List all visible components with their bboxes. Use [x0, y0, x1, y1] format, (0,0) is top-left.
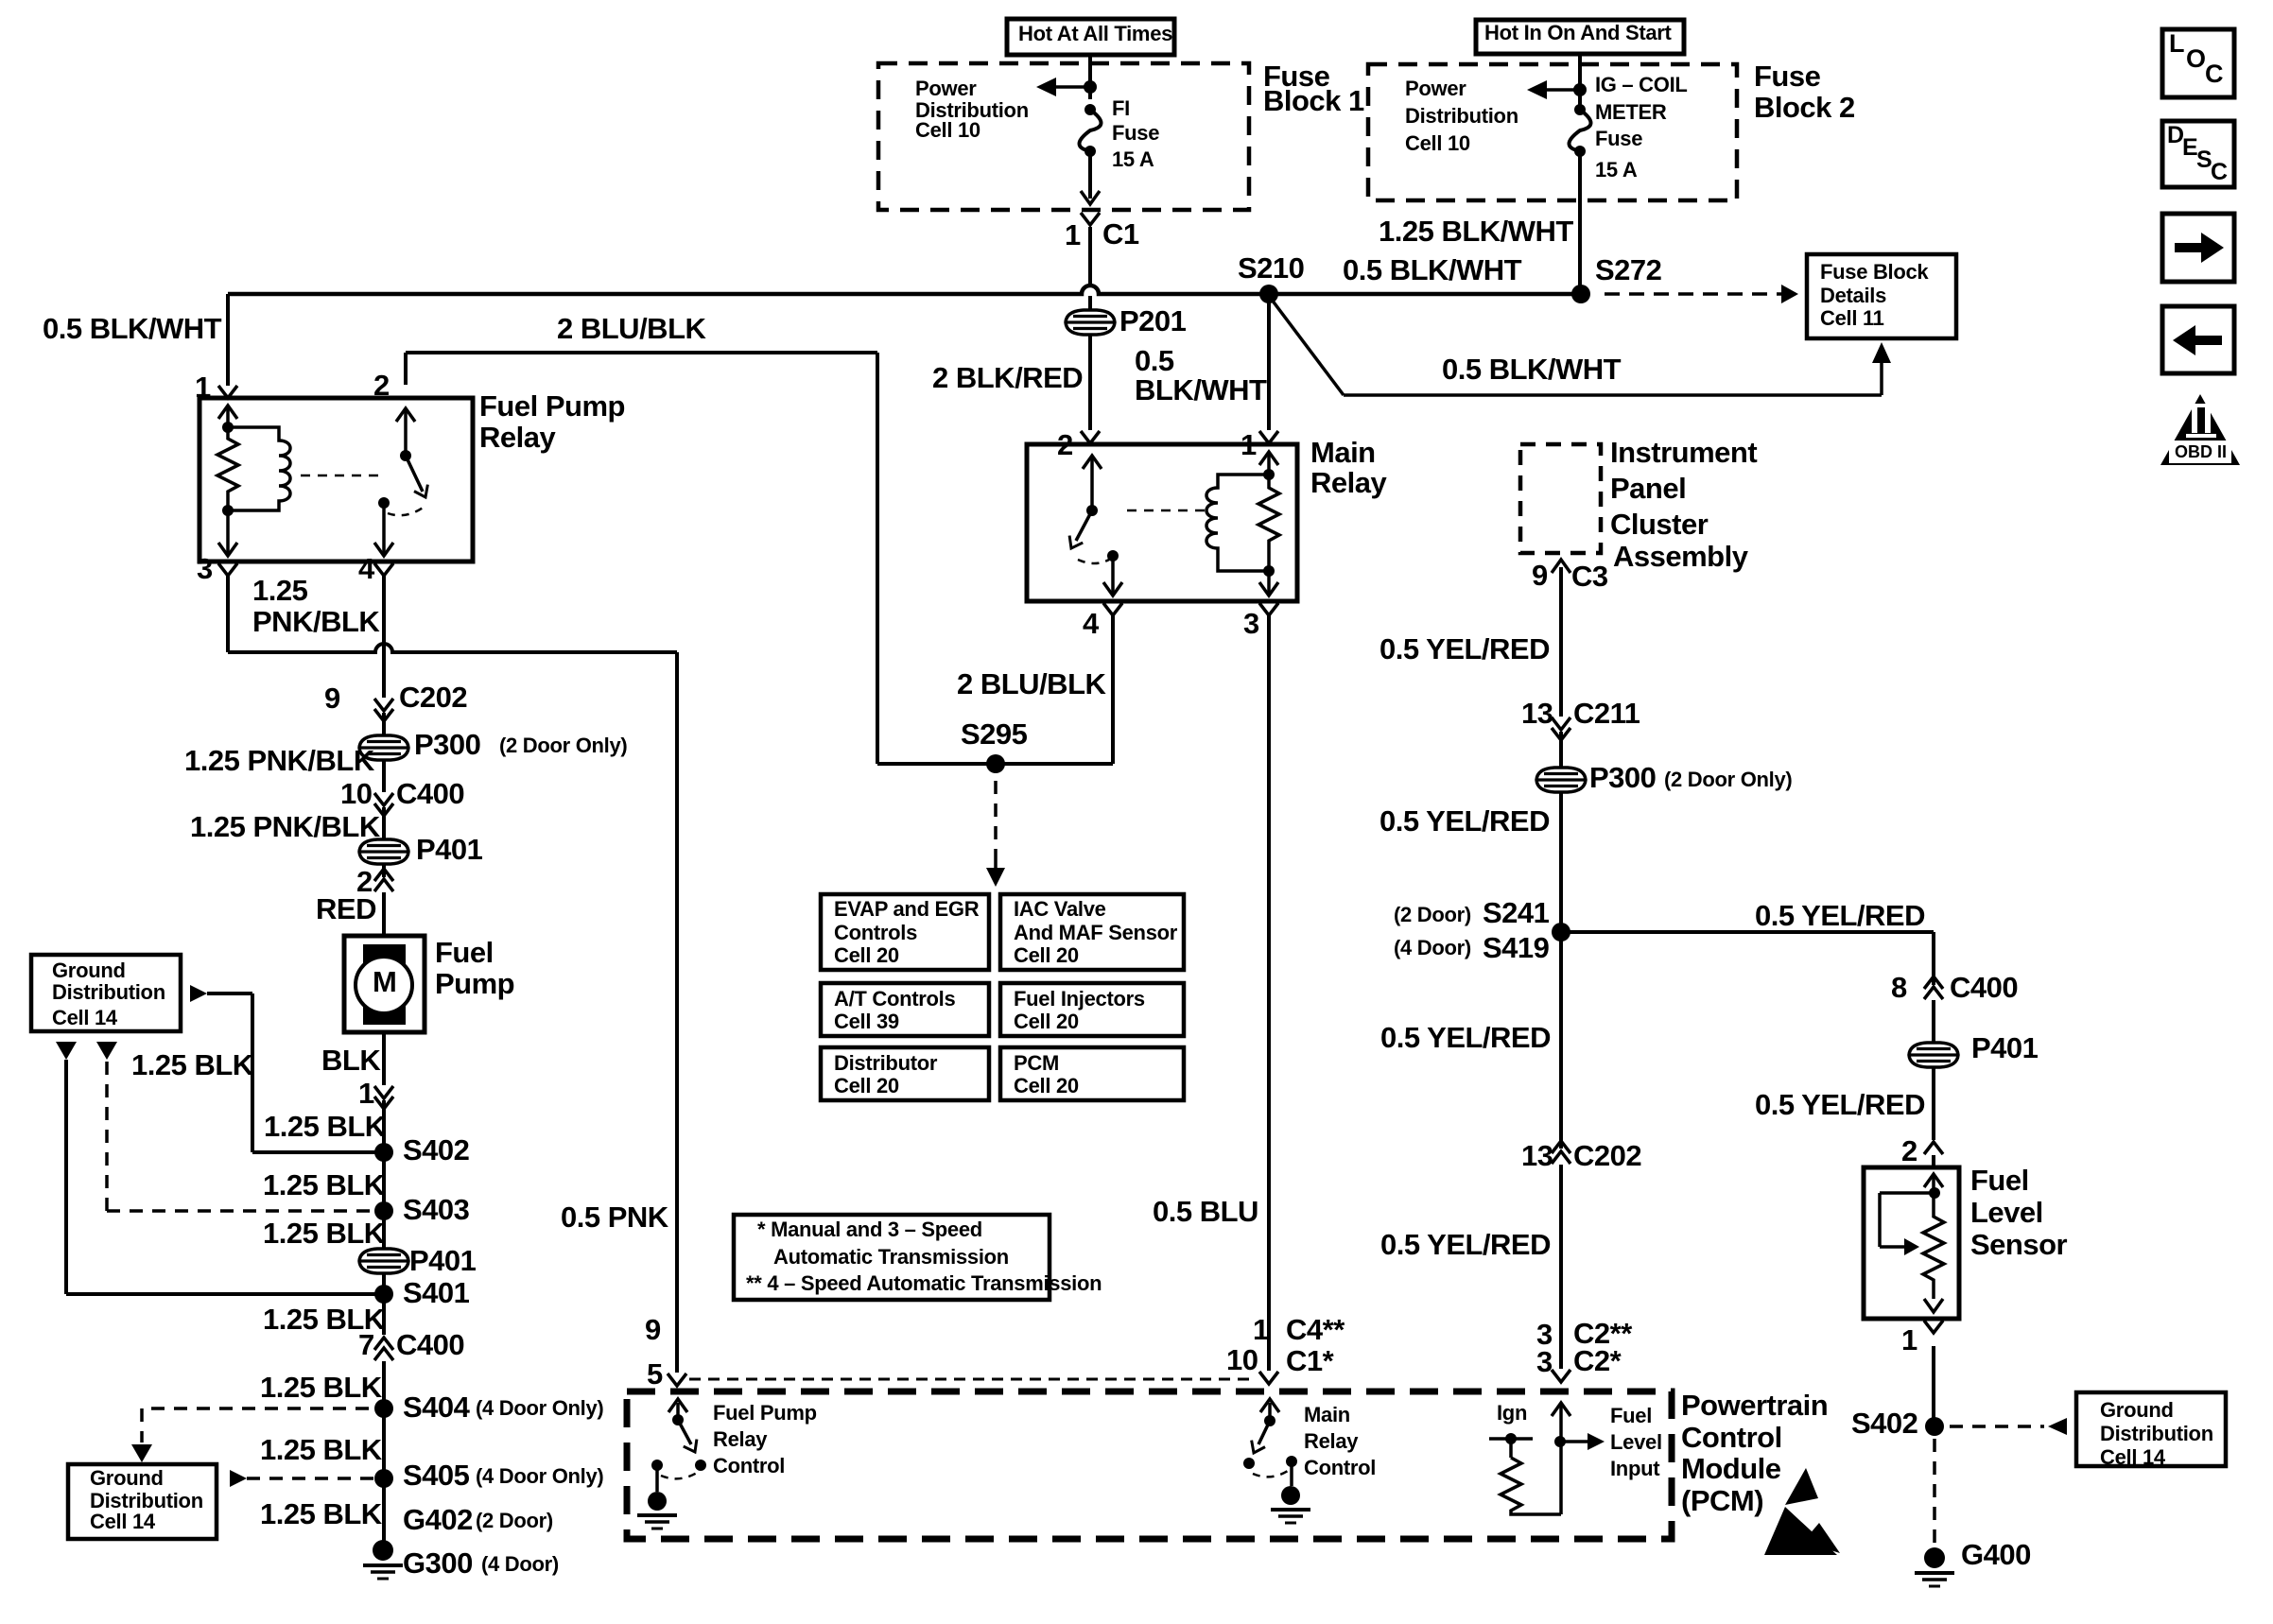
FLS bottom arrow	[1924, 1299, 1943, 1312]
connector chevron main relay pin2	[1081, 431, 1100, 443]
label ground distribution upper	[52, 960, 126, 981]
wire FB1 vertical from Hot box through fuse	[1088, 55, 1092, 99]
label fuel injectors box text	[1014, 989, 1145, 1010]
wire FB2 fuse to S272	[1578, 151, 1582, 294]
wire P300 to C400	[382, 760, 386, 792]
wire main relay pin3 0.5 BLU down to PCM	[1267, 614, 1271, 1371]
label AT controls box text	[834, 989, 955, 1010]
fuse FI 15A F1	[1080, 110, 1102, 151]
arrow dashed down to S403 wire	[96, 1042, 117, 1060]
PCM ign resistor	[1489, 1437, 1533, 1441]
wire P300 to S241	[1559, 792, 1563, 1149]
main relay pin3 arrow	[1267, 571, 1271, 594]
fuse block 1 dashed box	[878, 63, 1249, 210]
wire S210 diagonal	[1269, 296, 1344, 395]
label pin 2 main relay	[1057, 430, 1073, 459]
wire dashed S402 down to G400	[1933, 1439, 1936, 1543]
connector C400 pin 8 chevrons	[1924, 987, 1943, 999]
main relay resistor zigzag	[1258, 475, 1279, 571]
label pin 1 fls	[1901, 1325, 1917, 1355]
label G300	[403, 1548, 473, 1578]
connector chevron relay pin1	[218, 386, 237, 398]
box PCM Cell 20	[1000, 1047, 1184, 1100]
label S295	[961, 719, 1027, 749]
icon right arrow glyph	[2175, 243, 2203, 252]
wire arrow up into IPC box	[1559, 567, 1563, 717]
label 9 5 pcm pins	[645, 1315, 661, 1344]
label pin 1 main relay	[1241, 430, 1257, 459]
wire BLK below fuel pump	[382, 1032, 386, 1085]
connector C202 pin 9 chevrons	[374, 699, 393, 711]
icon DESC box	[2162, 121, 2234, 187]
label Ign	[1497, 1403, 1527, 1424]
label 0.5 YEL/RED right	[1755, 901, 1925, 930]
connector chevron C4/C1 PCM	[1259, 1372, 1278, 1384]
label 1 C1	[1065, 220, 1081, 250]
main relay switch dashed arc	[1078, 560, 1109, 563]
PCM MRC contact dots	[1243, 1458, 1255, 1469]
label 1.25 BLK e	[260, 1373, 382, 1402]
fuel level sensor box	[1864, 1167, 1959, 1319]
label S241 S419	[1394, 905, 1471, 925]
label 7 C400	[358, 1330, 374, 1359]
label 1.25 BLK g	[260, 1499, 382, 1529]
arrow from upper ground box	[190, 985, 207, 1002]
main relay pin4 arrow	[1111, 556, 1115, 594]
label 3 C2*	[1536, 1347, 1553, 1376]
icon right arrow box	[2162, 214, 2234, 282]
label pin4 main relay	[1083, 609, 1099, 638]
label 9 C202	[324, 683, 340, 713]
label 0.5 BLU	[1153, 1197, 1258, 1226]
connector P300 IPC	[1536, 768, 1586, 792]
connector fuel pump pin 1 chevrons	[374, 1086, 393, 1098]
main relay coil top dot	[1263, 469, 1275, 480]
fuel pump relay switch pin2 arrow	[404, 410, 408, 456]
wire 0.5 PNK vertical to PCM	[675, 652, 679, 1373]
fuel pump relay switch pivot dot	[400, 450, 411, 461]
wire C211 to P300	[1559, 732, 1563, 768]
fuel pump relay switch arm	[406, 456, 423, 492]
label S272	[1595, 255, 1661, 285]
box Fuel Injectors Cell 20	[1000, 983, 1184, 1036]
main relay switch pivot dot	[1086, 505, 1098, 516]
connector C400 pin 10 chevrons	[374, 793, 393, 805]
connector chevron PCM pin 5	[668, 1373, 686, 1386]
PCM MRC ground	[1290, 1461, 1293, 1486]
label pin3 main relay	[1243, 609, 1259, 638]
label RED	[316, 894, 376, 924]
label 1 C4**	[1253, 1315, 1269, 1344]
label 0.5 PNK	[561, 1202, 668, 1232]
label distributor box text	[834, 1053, 937, 1074]
node junction dot FB2	[1573, 83, 1587, 96]
main relay switch contact dot	[1107, 550, 1119, 561]
label icon LOC letters	[2169, 31, 2184, 57]
label 2 BLK/RED	[932, 363, 1083, 392]
label 2 BLU/BLK s295	[957, 669, 1105, 699]
node S295	[986, 754, 1005, 773]
label pin4	[358, 554, 374, 583]
fuel pump relay coil top dot	[222, 422, 234, 433]
ground G300	[373, 1540, 393, 1561]
connector C1 chevron below FB1	[1081, 213, 1100, 225]
PCM FPRC contact dots	[651, 1460, 663, 1471]
wire FB1 arrow to Power Distribution	[1056, 85, 1090, 89]
connector chevron FLS pin 1	[1924, 1321, 1943, 1333]
label 10 C400	[340, 779, 372, 808]
connector fuel pump pin 2 chevrons	[374, 879, 393, 891]
label M motor	[373, 967, 396, 996]
label hot in on and start	[1484, 23, 1672, 43]
icon left arrow glyph	[2194, 336, 2222, 345]
label 1.25 BLK d	[263, 1304, 385, 1334]
wire relay pin2 up and right 2 BLU/BLK	[404, 353, 408, 385]
icon LOC box	[2162, 29, 2234, 97]
PCM FPRC dashed arc	[661, 1473, 697, 1478]
wire P201 to main relay pin2	[1088, 335, 1092, 430]
wire down to C400 8	[1932, 932, 1935, 985]
connector P401 second	[359, 1249, 408, 1273]
fuel pump relay switch contact dot	[378, 497, 390, 509]
wire S295 horizontal	[877, 762, 1113, 766]
PCM MRC pivot dot	[1264, 1415, 1275, 1426]
label 0.5 YEL/RED 1	[1379, 634, 1550, 664]
box hot at all times	[1007, 19, 1174, 55]
connector P401	[359, 839, 408, 864]
connector chevron FLS pin 2	[1924, 1142, 1943, 1154]
label PCM fuel pump relay control	[713, 1403, 817, 1424]
label fuel level sensor	[1970, 1166, 2029, 1195]
fuel pump relay coil bottom dot	[222, 505, 234, 516]
label 10 C1*	[1226, 1345, 1258, 1374]
relay K1 fuel pump relay box	[200, 398, 473, 561]
main relay switch arm	[1076, 510, 1092, 541]
FLS top arrow	[1932, 1176, 1935, 1193]
fuse block 2 dashed box	[1368, 64, 1737, 200]
wire upper ground box to S402	[207, 992, 252, 995]
label main relay	[1310, 438, 1376, 467]
PCM ESD symbol	[1764, 1468, 1840, 1555]
connector chevron C2 PCM	[1552, 1370, 1570, 1382]
node junction dot FB1	[1084, 80, 1097, 94]
box hot in on and start	[1476, 20, 1684, 54]
label pin2 fuel pump relay	[373, 371, 390, 400]
label S404	[403, 1392, 469, 1422]
label P401 left	[416, 835, 482, 864]
wire thin dashed PCM pin row	[689, 1378, 1257, 1381]
wire S241 branch right	[1561, 930, 1934, 934]
label 0.5 BLK/WHT bus right	[1343, 255, 1521, 285]
connector P401 right	[1909, 1043, 1958, 1067]
arrow from lower ground box to S405	[230, 1470, 247, 1487]
fuel pump relay resistor zigzag	[217, 427, 238, 510]
label 1.25 BLK a	[264, 1112, 386, 1141]
connector C211 pin 13 chevrons	[1552, 717, 1570, 730]
PCM fuel pump relay control switch arrow up	[676, 1403, 680, 1420]
label 0.5 YEL/RED 4	[1380, 1230, 1551, 1259]
PCM fuel level input line	[1559, 1405, 1563, 1514]
PCM MRC dashed arc	[1253, 1471, 1288, 1477]
connector P300	[359, 735, 408, 760]
wire S210 to main relay pin1	[1267, 294, 1271, 430]
label P300 ipc	[1589, 763, 1656, 792]
label 2 BLU/BLK top	[557, 314, 705, 343]
connector chevron main relay pin3	[1259, 603, 1278, 615]
fuel pump relay switch dashed arc	[388, 506, 425, 515]
label 0.5 YEL/RED 3	[1380, 1023, 1551, 1052]
label ground distribution right	[2100, 1400, 2174, 1421]
label 0.5 BLK/WHT top left	[43, 314, 221, 343]
label hot at all times	[1018, 24, 1172, 44]
box Distributor Cell 20	[821, 1047, 989, 1100]
main relay coil bottom dot	[1263, 565, 1275, 577]
label 1.25 PNK/BLK pins	[252, 576, 307, 605]
label note box text	[757, 1219, 982, 1240]
arrow from right ground box to S402	[2048, 1418, 2067, 1435]
PCM FPRC pivot dot	[672, 1414, 684, 1425]
label BLK	[321, 1045, 380, 1075]
icon left arrow box	[2162, 306, 2234, 373]
node S402 right	[1925, 1417, 1944, 1436]
PCM FPRC ground	[655, 1465, 659, 1492]
label P401 right	[1971, 1033, 2038, 1063]
wire C400 to P401 right	[1932, 1000, 1935, 1043]
wire C400 to P401	[382, 807, 386, 839]
connector C400 pin 7 chevrons	[374, 1348, 393, 1360]
wire pin4 to C202	[382, 575, 386, 698]
label 0.5 BLK/WHT wrapped	[1135, 346, 1174, 375]
wire FB1 fuse to box bottom with arrow	[1088, 151, 1092, 199]
label 1.25 BLK upper gd	[131, 1050, 253, 1080]
box EVAP and EGR Controls Cell 20	[821, 894, 989, 970]
label FB2 IG-COIL METER fuse 15A	[1595, 75, 1688, 95]
node S210	[1259, 285, 1278, 303]
PCM fuel level input dot and arrow	[1554, 1436, 1566, 1447]
box ground distribution cell 14 lower	[68, 1464, 217, 1539]
PCM main relay control switch arrow up	[1268, 1403, 1272, 1421]
label PCM main relay control	[1304, 1405, 1350, 1425]
wire 0.5 PNK horizontal with hop over pin4 wire	[228, 644, 677, 652]
label 1.25 BLK f	[260, 1435, 382, 1464]
label 1.25 BLK c	[263, 1218, 385, 1248]
label 0.5 BLK/WHT lower	[1442, 354, 1621, 384]
fuse IG-COIL METER 15A F2	[1570, 110, 1591, 151]
label pin1 fuel pump relay	[195, 372, 211, 402]
wire P401 to pin2 chevron	[382, 864, 386, 877]
wire into FLS box	[1932, 1155, 1935, 1167]
connector C202 pin 13 chevrons	[1552, 1151, 1570, 1164]
label FB1 power distribution cell 10	[915, 78, 977, 99]
wire 0.5 BLK/WHT to fuse block details	[1344, 393, 1882, 397]
connector chevron relay pin4	[374, 563, 393, 576]
label P300 left	[414, 730, 480, 759]
FLS resistor zigzag	[1923, 1193, 1944, 1299]
PCM FPRC switch arm	[678, 1420, 691, 1444]
box fuse block details cell 11	[1807, 254, 1956, 338]
wire dashed S403 branch	[105, 1062, 109, 1211]
wire FB2 vertical from Hot box through fuse	[1578, 55, 1582, 107]
main relay coil loop	[1206, 475, 1269, 571]
connector chevron main relay pin1	[1259, 431, 1278, 443]
fuel pump relay coil loop	[228, 427, 290, 510]
PCM MRC switch arm	[1258, 1421, 1270, 1444]
label 13 C211	[1521, 699, 1553, 728]
label PCM fuel level input	[1610, 1406, 1652, 1426]
node S272	[1571, 285, 1590, 303]
wire main bus 0.5 BLK/WHT with hop over C1	[228, 285, 1581, 294]
label fuel pump	[435, 938, 494, 967]
fuel pump relay pin3 arrow	[226, 510, 230, 554]
label 8 C400	[1891, 973, 1907, 1002]
node S405	[374, 1469, 393, 1488]
label fuel pump relay	[479, 391, 625, 421]
label S402	[403, 1135, 469, 1165]
wire dashed S295 arrow down	[994, 781, 998, 862]
label S403	[403, 1195, 469, 1224]
wire 2 BLU/BLK down at 928	[876, 353, 879, 764]
wire dashed S272 to fuse block details	[1605, 292, 1781, 296]
label 3 C2**	[1536, 1320, 1553, 1349]
wire fuel pump relay pin1 drop	[226, 294, 230, 386]
label P401 second	[409, 1246, 476, 1275]
wire C202 to C2 pins	[1559, 1165, 1563, 1369]
box IAC Valve And MAF Sensor Cell 20	[1000, 894, 1184, 970]
node S401	[374, 1285, 393, 1304]
connector P201	[1066, 310, 1115, 335]
label 13 C202	[1521, 1141, 1553, 1170]
label S401	[403, 1278, 469, 1307]
label OBD II text	[2175, 443, 2227, 460]
wire P401 to C400 7	[382, 1273, 386, 1335]
instrument panel cluster dashed box	[1520, 444, 1601, 553]
label ground distribution lower	[90, 1468, 164, 1489]
label FB2 power distribution cell 10	[1405, 78, 1466, 99]
label pin 2 fls	[1901, 1136, 1917, 1166]
label 0.5 YEL/RED 2	[1379, 806, 1550, 836]
wire RED to fuel pump	[382, 892, 386, 936]
arrow dashed S404 into ground box	[131, 1444, 152, 1462]
label 0.5 YEL/RED right 2	[1755, 1090, 1925, 1119]
wire fuel pump relay pin3 down	[226, 575, 230, 652]
wire dashed S405 branch	[247, 1477, 376, 1480]
label S402 right	[1851, 1408, 1917, 1438]
box ground distribution cell 14 right	[2076, 1392, 2226, 1466]
label G402	[403, 1505, 473, 1534]
label 1.25 PNK/BLK 1	[184, 746, 374, 775]
arrow solid down to S401 wire	[56, 1042, 77, 1060]
label FB1 FI fuse 15A	[1112, 98, 1130, 119]
label IAC box text	[1014, 899, 1106, 920]
icon OBD II triangle	[2160, 394, 2240, 465]
main relay dashed link	[1127, 510, 1210, 512]
wire P201 segment	[1088, 296, 1092, 310]
label EVAP box text	[834, 899, 979, 920]
label S210	[1238, 253, 1304, 283]
label P201	[1119, 306, 1186, 336]
fuel pump motor circle	[356, 957, 412, 1013]
label icon DESC letters	[2167, 124, 2184, 147]
label S405	[403, 1460, 469, 1490]
label fuse block 2	[1754, 61, 1820, 91]
label 1.25 BLK b	[263, 1170, 385, 1200]
wire S401 branch	[64, 1060, 68, 1294]
FLS wiper path	[1880, 1191, 1935, 1195]
wire FLS pin1 to S402	[1932, 1346, 1935, 1426]
relay K2 main relay box	[1027, 444, 1297, 601]
connector chevron main relay pin4	[1103, 603, 1122, 615]
fuel pump relay dashed link	[301, 475, 383, 477]
label powertrain control module	[1681, 1391, 1828, 1420]
label fuse block 1	[1263, 61, 1329, 91]
fuel pump M1 box	[344, 936, 425, 1032]
label 1.25 BLK/WHT	[1379, 216, 1573, 246]
powertrain control module dashed box	[627, 1391, 1672, 1539]
label PCM cell box text	[1014, 1053, 1059, 1074]
label G400	[1961, 1540, 2031, 1569]
node S402	[374, 1143, 393, 1162]
wire C1 to bus	[1088, 227, 1092, 285]
wire to S402	[382, 1100, 386, 1249]
box A/T Controls Cell 39	[821, 983, 989, 1036]
label pin3	[197, 554, 213, 583]
label fuse block details cell 11	[1820, 262, 1928, 283]
wire P401 to fuel level sensor	[1932, 1067, 1935, 1140]
wire dashed S402 to ground distribution box	[1950, 1425, 2044, 1428]
wire main relay pin4 drop to S295	[1111, 614, 1115, 764]
connector chevron relay pin3	[218, 563, 237, 576]
wire C202 to P300	[382, 713, 386, 735]
box note manual transmission	[734, 1215, 1050, 1300]
wire FB2 arrow to Power Distribution	[1547, 88, 1580, 92]
main relay pin1 arrow	[1267, 454, 1271, 475]
box ground distribution cell 14 upper	[31, 955, 181, 1031]
node S403	[374, 1201, 393, 1220]
fuel pump relay pin4 arrow	[382, 503, 386, 554]
node S241 S419	[1552, 923, 1570, 942]
node S404	[374, 1399, 393, 1418]
FLS wiper dot	[1929, 1187, 1940, 1199]
wire dashed S404 branch	[151, 1407, 376, 1410]
label pin 2 pump	[356, 867, 373, 896]
label pin 1 pump	[358, 1079, 374, 1108]
ground G400	[1924, 1547, 1945, 1568]
wire C400 down to ground	[382, 1361, 386, 1541]
fuel pump relay coil branch pin1 arrow	[226, 406, 230, 427]
label instrument panel cluster assembly	[1610, 438, 1757, 467]
fuel pump brush pads	[363, 944, 406, 967]
label 1.25 PNK/BLK 2	[190, 812, 380, 841]
label 9 C3	[1532, 561, 1548, 590]
main relay pin2 arrow	[1090, 458, 1094, 510]
